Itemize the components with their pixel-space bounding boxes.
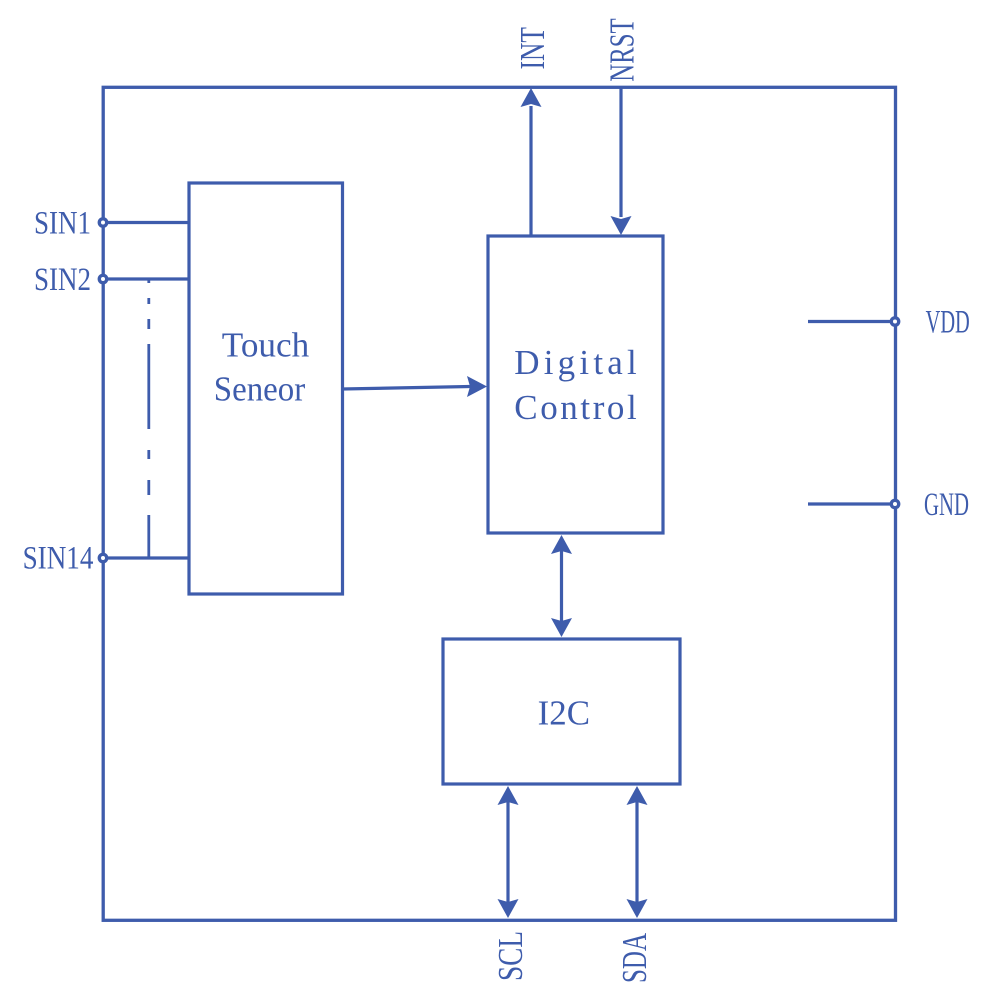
wire SIN1	[107, 221, 189, 224]
svg-text:SIN1: SIN1	[34, 206, 91, 242]
wire GND	[808, 502, 891, 505]
wire VDD	[808, 320, 891, 323]
pin SIN14	[99, 554, 106, 561]
pin GND	[891, 500, 898, 507]
block I2C	[443, 639, 680, 784]
chip outer boundary	[103, 87, 895, 920]
pin SIN1	[99, 219, 106, 226]
svg-text:GND: GND	[924, 487, 969, 523]
wire SIN14	[107, 556, 189, 559]
INT output arrow (Digital Control up to top border)	[521, 88, 542, 236]
svg-text:NRST: NRST	[603, 18, 642, 81]
svg-text:Seneor: Seneor	[214, 370, 306, 409]
double arrow Digital Control to I2C	[551, 535, 572, 637]
svg-text:VDD: VDD	[926, 304, 970, 340]
svg-text:INT: INT	[513, 27, 552, 69]
NRST input arrow (top border down to Digital Control)	[611, 88, 632, 235]
block Touch Seneor	[189, 183, 343, 594]
block Digital Control	[488, 236, 663, 533]
double arrow SCL (I2C to bottom border)	[498, 786, 519, 918]
pin SIN2	[99, 275, 106, 282]
arrow Touch Seneor to Digital Control	[342, 376, 487, 397]
pin VDD	[891, 318, 898, 325]
svg-text:Touch: Touch	[222, 326, 310, 365]
svg-text:Digital: Digital	[514, 343, 637, 382]
svg-text:SIN14: SIN14	[23, 540, 94, 576]
svg-text:SIN2: SIN2	[34, 262, 91, 298]
svg-text:Control: Control	[514, 388, 637, 427]
double arrow SDA (I2C to bottom border)	[627, 786, 648, 918]
dash-dot continuation line between SIN2 and SIN14	[147, 280, 150, 558]
wire SIN2	[107, 277, 189, 280]
svg-text:I2C: I2C	[538, 694, 590, 733]
svg-text:SDA: SDA	[615, 932, 654, 983]
svg-text:SCL: SCL	[491, 931, 530, 981]
